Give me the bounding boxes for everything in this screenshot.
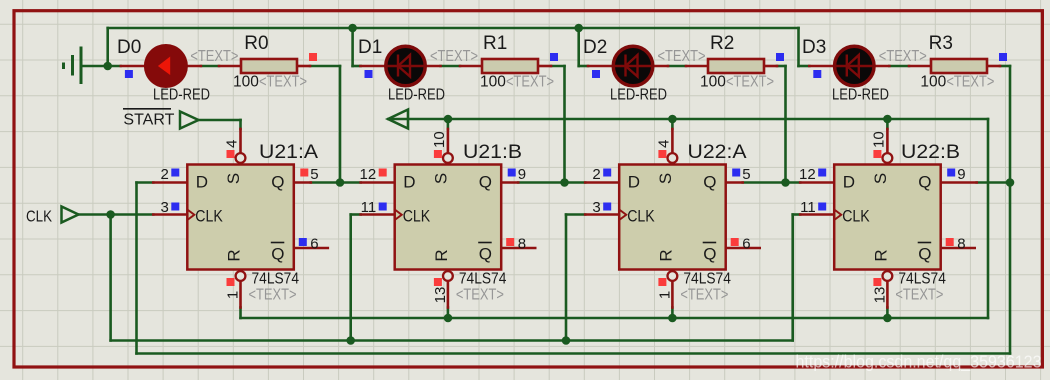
svg-text:<TEXT>: <TEXT> [658,48,706,65]
svg-text:8: 8 [957,236,965,253]
svg-text:U22:A: U22:A [688,141,747,163]
svg-text:<TEXT>: <TEXT> [895,287,943,304]
svg-text:4: 4 [655,140,672,148]
svg-text:Q: Q [918,245,931,264]
svg-text:74LS74: 74LS74 [898,271,946,288]
svg-text:R: R [656,249,675,261]
svg-text:D2: D2 [583,37,607,58]
svg-text:CLK: CLK [842,207,870,226]
svg-text:S: S [871,173,890,184]
svg-text:5: 5 [742,166,750,183]
svg-text:LED-RED: LED-RED [610,87,667,104]
svg-text:2: 2 [592,166,600,183]
svg-text:Q: Q [703,245,716,264]
svg-text:R3: R3 [929,33,953,54]
svg-text:R: R [871,249,890,261]
svg-text:100: 100 [480,74,506,91]
svg-text:4: 4 [224,140,241,148]
svg-text:11: 11 [361,199,377,216]
svg-text:13: 13 [871,287,888,304]
svg-text:R2: R2 [710,33,734,54]
svg-text:R1: R1 [483,33,507,54]
svg-text:12: 12 [360,166,377,183]
svg-text:2: 2 [160,166,168,183]
svg-text:74LS74: 74LS74 [252,271,300,288]
svg-text:D: D [196,173,208,192]
svg-text:74LS74: 74LS74 [683,271,731,288]
svg-text:<TEXT>: <TEXT> [430,48,478,65]
svg-text:9: 9 [957,166,965,183]
svg-text:https://blog.csdn.net/qq_35936: https://blog.csdn.net/qq_35936123 [796,352,1042,373]
svg-text:CLK: CLK [627,207,655,226]
svg-text:CLK: CLK [403,207,431,226]
svg-text:S: S [431,173,450,184]
svg-text:10: 10 [431,131,448,148]
svg-text:<TEXT>: <TEXT> [190,48,238,65]
svg-text:LED-RED: LED-RED [153,87,210,104]
svg-text:100: 100 [920,74,946,91]
svg-text:<TEXT>: <TEXT> [249,287,297,304]
svg-text:Q: Q [918,173,931,192]
svg-text:<TEXT>: <TEXT> [456,287,504,304]
svg-text:12: 12 [799,166,816,183]
svg-text:U21:B: U21:B [463,141,522,163]
svg-text:D1: D1 [358,37,382,58]
svg-text:<TEXT>: <TEXT> [259,74,307,91]
svg-text:5: 5 [310,166,318,183]
svg-text:LED-RED: LED-RED [832,87,889,104]
svg-text:3: 3 [592,199,600,216]
svg-text:<TEXT>: <TEXT> [946,74,994,91]
svg-text:8: 8 [518,236,526,253]
svg-text:6: 6 [310,236,318,253]
svg-text:3: 3 [160,199,168,216]
svg-text:11: 11 [800,199,816,216]
svg-text:1: 1 [225,291,242,299]
svg-text:10: 10 [870,131,887,148]
svg-text:Q: Q [271,173,284,192]
svg-text:Q: Q [479,245,492,264]
svg-text:S: S [656,173,675,184]
svg-text:CLK: CLK [195,207,223,226]
svg-text:D: D [628,173,640,192]
svg-text:13: 13 [432,287,449,304]
svg-text:74LS74: 74LS74 [459,271,507,288]
svg-text:U22:B: U22:B [901,141,960,163]
svg-text:100: 100 [233,74,259,91]
svg-text:U21:A: U21:A [259,141,318,163]
svg-text:S: S [224,173,243,184]
svg-text:CLK: CLK [26,209,52,226]
svg-text:<TEXT>: <TEXT> [879,48,927,65]
svg-text:Q: Q [479,173,492,192]
svg-text:D3: D3 [802,37,826,58]
svg-text:Q: Q [271,245,284,264]
svg-text:Q: Q [703,173,716,192]
svg-text:1: 1 [656,291,673,299]
svg-text:6: 6 [742,236,750,253]
svg-text:9: 9 [518,166,526,183]
svg-text:<TEXT>: <TEXT> [680,287,728,304]
svg-text:<TEXT>: <TEXT> [506,74,554,91]
svg-text:D0: D0 [117,37,141,58]
svg-text:R: R [225,249,244,261]
svg-text:D: D [403,173,415,192]
svg-text:R: R [432,249,451,261]
svg-text:LED-RED: LED-RED [388,87,445,104]
svg-text:R0: R0 [244,33,268,54]
svg-text:D: D [843,173,855,192]
svg-text:<TEXT>: <TEXT> [726,74,774,91]
svg-text:START: START [123,112,174,129]
svg-text:100: 100 [700,74,726,91]
